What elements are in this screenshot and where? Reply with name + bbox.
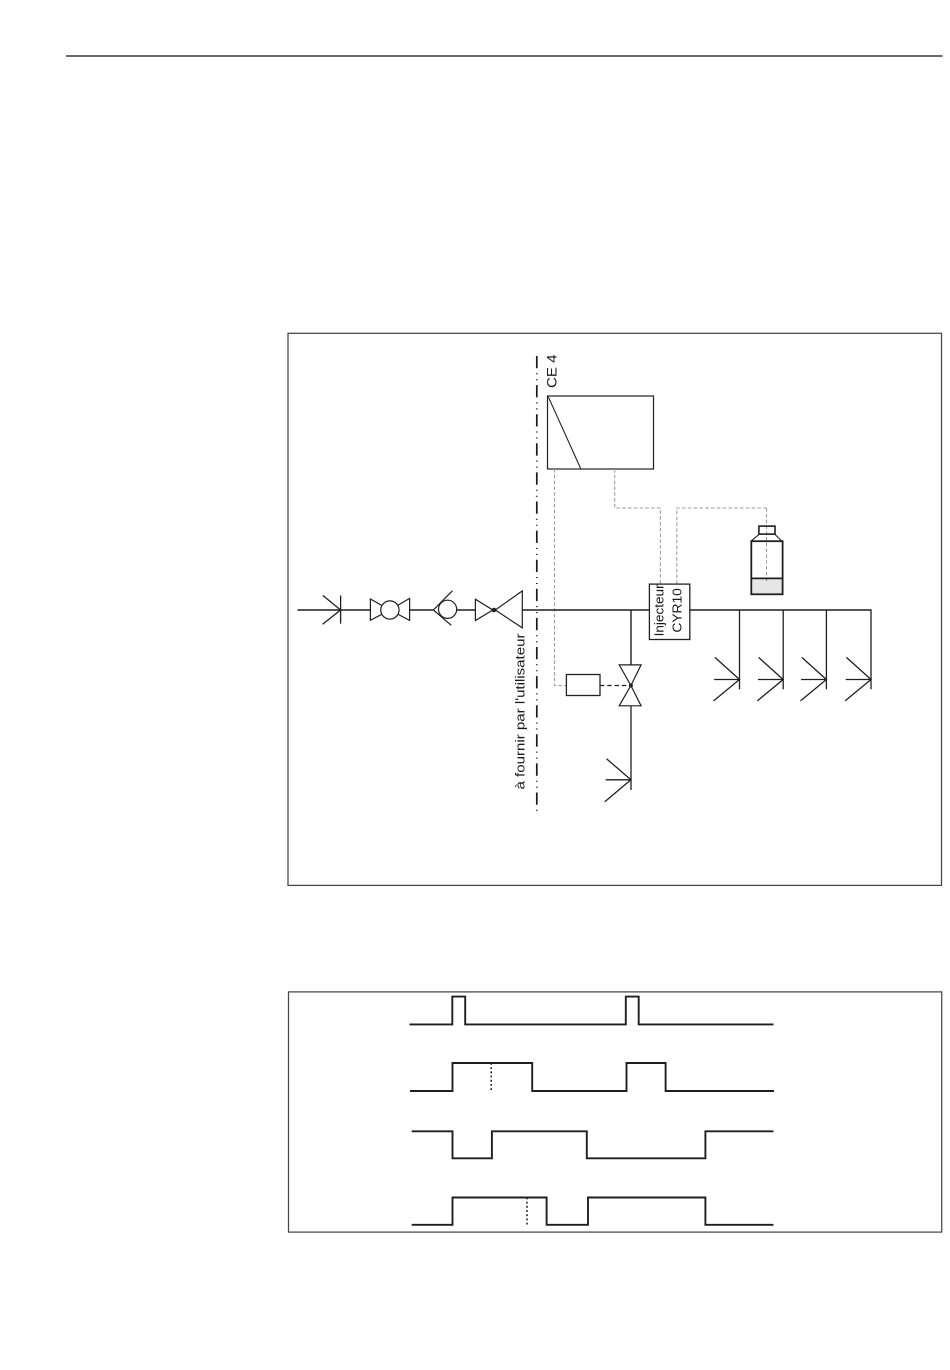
timing frame (289, 992, 942, 1232)
bottle liquid fill (751, 578, 782, 594)
boundary line (dash-dot-dot) (536, 356, 538, 811)
shut-off valve right triangle (390, 598, 410, 620)
bottle body (751, 541, 782, 594)
branch 3 (825, 610, 827, 689)
drain line below pilot valve (630, 706, 632, 790)
schematic frame (288, 333, 942, 885)
top rule (66, 55, 943, 57)
trace 2 dotted marker (490, 1063, 492, 1091)
svg-text:CYR10: CYR10 (669, 588, 684, 633)
inlet arrow (supply) (323, 595, 341, 624)
outlet arrow 3 (801, 657, 827, 701)
control line to injector (dashed grey) (615, 469, 661, 584)
outlet arrow 2 (757, 657, 783, 701)
control line injector to bottle (dashed grey) (677, 508, 767, 584)
waveform trace 2 (410, 1063, 774, 1091)
check valve ball (439, 600, 457, 618)
bottle cap (759, 526, 775, 534)
trace 4 dotted marker (526, 1198, 528, 1225)
waveform trace 1 (410, 997, 774, 1025)
svg-text:CE 4: CE 4 (545, 354, 560, 388)
branch to pilot valve (630, 610, 632, 665)
pressure regulator dot (492, 608, 497, 613)
controller box CE4 (548, 396, 654, 469)
bottle liquid line (751, 577, 782, 579)
controller diagonal (548, 397, 580, 469)
shut-off valve left triangle (370, 599, 390, 620)
main pipe (298, 609, 872, 611)
pilot solenoid box (566, 675, 600, 696)
solenoid to valve link (dashed) (600, 685, 628, 687)
control line to pilot solenoid (dashed grey) (555, 469, 567, 686)
branch 2 (782, 610, 784, 689)
outlet arrow 4 (845, 657, 871, 701)
pressure regulator left triangle (475, 599, 492, 620)
branch 4 (pipe end) (870, 609, 872, 689)
control line into bottle (dashed grey) (766, 508, 768, 583)
outlet arrow 1 (714, 657, 740, 701)
waveform trace 3 (412, 1131, 774, 1158)
svg-text:à fournir par l'utilisateur: à fournir par l'utilisateur (513, 633, 528, 790)
pressure regulator right triangle (495, 591, 522, 628)
drain outlet arrow (605, 759, 631, 802)
pilot valve dot (629, 684, 633, 688)
bottle shoulders (751, 534, 782, 541)
waveform trace 4 (412, 1198, 774, 1225)
shut-off valve ball (381, 601, 399, 619)
svg-text:Injecteur: Injecteur (651, 584, 666, 637)
pilot valve lower triangle (619, 686, 641, 706)
injector box CYR10 (649, 584, 689, 639)
pilot valve upper triangle (619, 665, 641, 686)
check valve seat (433, 591, 452, 626)
branch 1 (739, 610, 741, 689)
